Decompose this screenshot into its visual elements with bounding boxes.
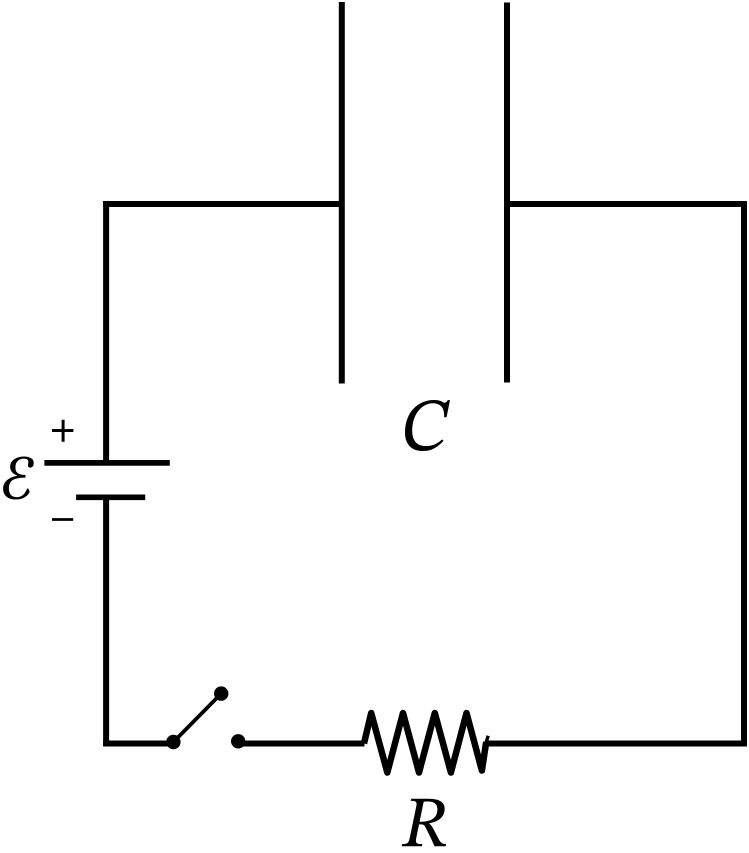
battery polarity minus sign: [52, 518, 73, 521]
capacitor C left plate: [339, 2, 345, 384]
battery polarity plus sign: [52, 420, 73, 442]
value label R: [402, 799, 446, 847]
resistor R right lead flick: [485, 736, 488, 746]
switch S left contact dot: [166, 735, 180, 749]
wire bottom-left, corner to switch left contact: [103, 741, 173, 747]
wire from left capacitor plate to top-left corner: [103, 201, 342, 207]
switch S open blade: [173, 694, 221, 742]
battery EMF negative (short) plate: [76, 494, 145, 500]
resistor R zigzag body: [364, 713, 486, 773]
switch S blade tip dot: [214, 686, 228, 700]
battery EMF positive (long) plate: [44, 460, 169, 466]
wire from switch right contact to resistor left lead: [238, 741, 364, 747]
value label script-E (EMF): [3, 456, 34, 499]
wire from battery negative plate down to bottom-left corner: [103, 497, 109, 746]
value label C: [405, 400, 450, 451]
capacitor C right plate: [504, 3, 510, 383]
switch S right contact dot: [231, 734, 245, 748]
wire bottom-right, corner to resistor right lead: [486, 741, 747, 747]
wire from right capacitor plate to top-right corner: [507, 201, 747, 207]
wire left side, corner down to battery positive plate: [103, 201, 109, 460]
wire right side, corner down to bottom-right corner: [741, 201, 747, 746]
